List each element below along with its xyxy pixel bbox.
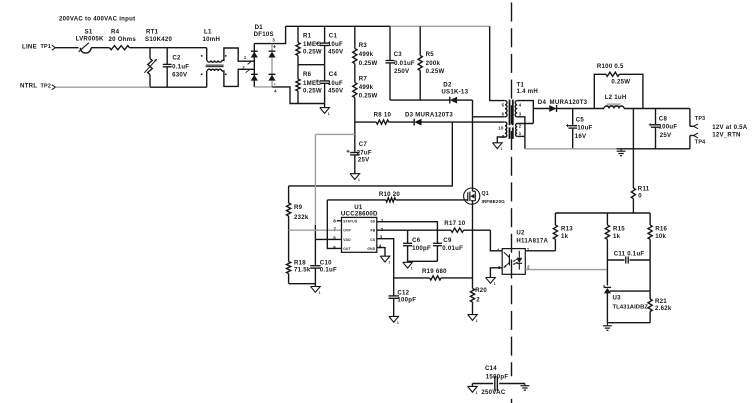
ground [603,323,612,331]
svg-text:C5: C5 [576,117,585,124]
resistor R15 [605,213,625,285]
svg-text:1: 1 [388,261,390,265]
svg-text:1: 1 [476,319,478,323]
wire VDD drop lower [314,225,316,266]
svg-text:250V: 250V [394,68,410,75]
wire VDD pin 6 [315,238,341,240]
svg-text:0.25W: 0.25W [359,92,378,99]
wire [533,108,549,110]
wire [298,103,325,105]
svg-text:1: 1 [411,267,413,271]
svg-text:TL431AIDBZ: TL431AIDBZ [613,304,649,310]
svg-text:450V: 450V [328,49,344,56]
svg-text:US1K-13: US1K-13 [441,89,468,96]
capacitor C14 1500pF [472,365,525,396]
svg-text:1: 1 [476,391,478,395]
svg-text:1: 1 [519,131,522,136]
test point TP2 [41,83,56,89]
svg-text:16V: 16V [575,133,587,140]
svg-text:100uF: 100uF [659,123,678,130]
svg-text:630V: 630V [172,71,188,78]
svg-text:C14: C14 [485,365,497,372]
svg-text:CS: CS [370,238,376,242]
svg-text:20 Ohms: 20 Ohms [109,36,137,43]
svg-text:TP4: TP4 [695,140,706,146]
svg-text:R3: R3 [359,42,368,49]
wire [222,69,255,86]
svg-text:TP1: TP1 [41,44,52,50]
svg-text:5: 5 [502,102,505,107]
svg-text:C10: C10 [320,259,332,266]
svg-text:4: 4 [519,102,522,107]
wire [130,47,207,49]
wire [408,260,438,262]
wire FB pin 2 [377,229,451,231]
svg-text:L1: L1 [204,28,212,35]
svg-text:GND: GND [367,247,375,251]
svg-text:Q1: Q1 [482,191,489,197]
svg-text:D4: D4 [538,99,547,106]
title label [59,15,135,22]
svg-text:2: 2 [519,124,522,129]
svg-text:0.25W: 0.25W [426,68,445,75]
svg-text:C11 0.1uF: C11 0.1uF [614,251,645,258]
capacitor C11 [607,251,650,264]
svg-text:232k: 232k [294,214,309,221]
wire clamp node [390,99,450,101]
wire VDD node [355,121,377,123]
svg-text:1: 1 [244,55,247,60]
svg-text:R15: R15 [613,225,625,232]
capacitor C5 [566,109,593,149]
svg-text:1.4 mH: 1.4 mH [517,88,538,95]
wire SS pin 1 [377,222,438,244]
resistor R3 [353,26,378,67]
wire [298,64,325,66]
ground [320,104,330,117]
inductor L2 1uH [604,94,627,108]
resistor R4 [109,28,137,49]
svg-text:R6: R6 [303,71,312,78]
svg-text:100pF: 100pF [397,297,416,304]
wire bias return [497,137,505,143]
T1 secondary winding 2 [516,124,522,137]
svg-text:2.62k: 2.62k [655,305,672,312]
transistor Q1 IRFBE20G [464,188,506,204]
wire opto pin 2 [525,269,607,271]
wire sec pin 2 [517,123,533,125]
wire [457,99,472,101]
svg-text:R5: R5 [426,51,435,58]
wire return rail [617,136,690,149]
node LINE label [22,43,37,50]
capacitor C10 [310,259,337,286]
wire sec pin 1 [517,136,525,148]
resistor R11 [631,109,649,214]
svg-text:71.5k: 71.5k [294,267,311,274]
svg-text:450V: 450V [328,87,344,94]
svg-text:R17 10: R17 10 [444,220,466,227]
svg-text:C8: C8 [659,116,668,123]
svg-text:1: 1 [501,147,503,151]
svg-text:0.01uF: 0.01uF [442,245,463,252]
svg-text:0.25W: 0.25W [359,60,378,67]
svg-text:TP3: TP3 [695,116,706,122]
diode D3 MURA120T3 [405,112,453,126]
svg-text:0.25W: 0.25W [303,49,322,56]
wire sense node [555,212,650,214]
svg-text:D3 MURA120T3: D3 MURA120T3 [405,112,453,119]
ground [350,174,360,182]
resistor R18 [287,259,311,283]
svg-text:R10 20: R10 20 [379,191,401,198]
wire DC bus gray [390,25,490,27]
diode D2 US1K-13 [441,82,468,104]
svg-text:25V: 25V [358,157,370,164]
transformer T1 1.4 mH [517,82,538,95]
svg-text:499k: 499k [359,51,374,58]
svg-text:FB: FB [370,229,375,233]
capacitor C1 [316,26,344,64]
wire return rail gray [525,148,617,150]
svg-text:12V_RTN: 12V_RTN [712,131,741,138]
label 12V return [712,131,741,138]
wire source [472,201,474,289]
svg-text:U2: U2 [516,230,525,237]
diode D4 MURA120T3 [538,99,588,112]
svg-text:200VAC to 400VAC input: 200VAC to 400VAC input [59,15,135,22]
test point TP1 [41,44,56,50]
T1 primary winding [502,101,507,117]
capacitor C9 [433,237,463,261]
optocoupler U2 H11A817A [497,230,549,275]
wire opto pin 3 [490,268,502,278]
resistor R7 [353,64,378,153]
svg-text:RT1: RT1 [146,28,159,35]
svg-text:R8 10: R8 10 [374,112,392,119]
wire OVP sense [289,122,453,186]
svg-text:1MEG: 1MEG [303,41,321,48]
svg-text:1: 1 [358,178,360,182]
wire GND pin 4 [377,248,385,257]
ground [311,287,321,295]
ground [389,316,399,324]
svg-text:R1: R1 [303,33,312,40]
svg-text:10uF: 10uF [328,80,343,87]
resistor R20 [470,287,487,314]
svg-text:100pF: 100pF [412,245,431,252]
wire [389,121,415,123]
svg-text:IRFBE20G: IRFBE20G [482,199,506,204]
svg-text:DF10S: DF10S [254,31,274,38]
test point TP3 [690,116,706,129]
resistor R5 [418,26,444,100]
wire CS pin 3 [377,239,394,296]
wire [91,47,109,49]
svg-text:S10K420: S10K420 [145,36,173,43]
resistor R19 [394,268,473,280]
ground [493,143,503,151]
svg-text:0.01uF: 0.01uF [394,60,415,67]
wire [624,108,690,110]
svg-text:0.1uF: 0.1uF [172,63,189,70]
wire sec pin 4 [517,101,533,124]
svg-text:499k: 499k [359,84,374,91]
svg-text:6: 6 [502,112,505,117]
svg-text:1k: 1k [613,233,621,240]
svg-text:10k: 10k [655,233,666,240]
wire bus to primary [490,26,505,100]
resistor R9 [287,186,309,262]
svg-text:8: 8 [333,218,336,223]
capacitor C6 [403,230,431,262]
capacitor C8 [649,109,678,149]
inductor L1 [201,28,227,87]
svg-text:C4: C4 [329,71,338,78]
test point TP4 [690,133,706,146]
svg-text:10mH: 10mH [203,36,221,43]
wire OUT riser [327,200,341,249]
svg-text:TP2: TP2 [41,83,52,89]
capacitor C12 [389,290,417,317]
svg-text:C9: C9 [443,237,452,244]
wire bridge + output [272,26,285,43]
svg-text:NTRL: NTRL [20,83,37,90]
resistor R1 [296,26,322,64]
ground [617,149,626,156]
svg-text:0.25W: 0.25W [303,87,322,94]
svg-text:R18: R18 [294,259,306,266]
svg-text:0.25W: 0.25W [611,78,630,85]
T1 core [509,100,514,139]
label 12V output [712,124,748,131]
capacitor C2 [163,48,189,87]
svg-text:3: 3 [519,112,522,117]
svg-text:VDD: VDD [343,238,351,242]
IC U1 UCC28600D [333,204,384,252]
svg-text:R20: R20 [475,287,487,294]
wire sec pin 3 [517,117,525,137]
svg-text:0.1uF: 0.1uF [320,267,337,274]
wire [55,47,78,49]
svg-text:7: 7 [333,227,336,232]
svg-text:R4: R4 [111,28,120,35]
svg-text:4: 4 [497,248,500,253]
svg-text:U3: U3 [613,295,622,302]
wire T1 primary bottom [473,116,505,118]
wire DC bus [286,25,390,27]
T1 secondary winding 1 [515,101,522,117]
svg-text:UCC28600D: UCC28600D [341,210,378,217]
svg-text:+: + [273,44,277,50]
svg-text:1: 1 [319,291,321,295]
svg-text:9: 9 [502,134,505,139]
svg-text:STATUS: STATUS [343,220,358,224]
resistor R16 [648,213,667,291]
svg-text:H11A817A: H11A817A [516,238,548,245]
ground [521,384,530,391]
wire bridge - output [272,87,298,104]
wire [289,283,316,285]
wire [55,86,150,88]
svg-text:L2 1uH: L2 1uH [605,94,627,101]
svg-text:OVP: OVP [343,229,351,233]
wire [150,86,207,88]
ground [468,384,478,395]
resistor R100 [594,63,643,109]
isolation boundary dashed line [511,3,513,403]
ground [380,256,390,264]
wire VDD drop [314,134,316,225]
svg-text:R13: R13 [561,225,573,232]
svg-text:25V: 25V [660,132,672,139]
svg-text:0: 0 [638,193,642,200]
wire FB to opto [490,230,502,251]
ground [403,262,413,270]
svg-text:1: 1 [494,282,496,286]
bridge rectifier D1 DF10S [242,24,277,94]
svg-text:R21: R21 [655,298,667,305]
svg-text:LINE: LINE [22,43,37,50]
wire bias winding node [422,121,505,123]
svg-text:1k: 1k [561,233,569,240]
resistor R8 [374,112,392,125]
resistor R21 [648,291,672,323]
T1 bias winding [498,122,506,139]
svg-text:2: 2 [527,265,530,270]
svg-text:R16: R16 [655,225,667,232]
wire VDD link [315,133,354,135]
ground [468,315,478,323]
capacitor C3 [386,26,415,100]
wire output corner [689,109,691,127]
wire switch node [472,100,474,188]
shunt regulator U3 TL431AIDBZ [604,285,649,323]
svg-text:D1: D1 [255,24,264,31]
ground [486,278,496,286]
fuse S1 LVR005K [76,28,104,53]
svg-text:R11: R11 [638,185,650,192]
svg-text:R100 0.5: R100 0.5 [597,63,624,70]
capacitor C7 [347,141,372,174]
resistor R10 [327,191,468,202]
wire [222,48,255,61]
svg-text:OUT: OUT [343,247,351,251]
wire OVP row [289,229,342,231]
svg-text:2: 2 [242,65,245,70]
svg-text:C1: C1 [329,33,338,40]
svg-text:C6: C6 [412,237,421,244]
svg-text:S1: S1 [85,28,93,35]
wire opto pin 1 [525,250,555,252]
svg-text:MURA120T3: MURA120T3 [550,99,588,106]
capacitor C4 [316,65,344,104]
svg-text:R9: R9 [294,204,303,211]
svg-text:10uF: 10uF [328,41,343,48]
svg-text:2: 2 [476,297,480,304]
svg-text:C3: C3 [394,51,403,58]
svg-text:R19 680: R19 680 [422,268,447,275]
svg-text:3: 3 [272,37,275,42]
svg-text:C7: C7 [359,141,368,148]
resistor R17 [444,220,490,232]
svg-text:200k: 200k [426,60,441,67]
svg-text:250VAC: 250VAC [481,389,505,396]
svg-text:R7: R7 [359,75,368,82]
svg-text:10uF: 10uF [577,125,592,132]
wire [607,322,650,324]
svg-text:10: 10 [498,125,504,130]
svg-text:LVR005K: LVR005K [76,36,104,43]
svg-text:C2: C2 [172,54,181,61]
svg-text:12V at 0.5A: 12V at 0.5A [712,124,748,131]
wire output node [557,108,605,110]
varistor RT1 [144,28,172,87]
svg-text:SS: SS [370,220,375,224]
wire ref [610,290,650,292]
node NTRL label [20,83,37,90]
svg-text:4: 4 [274,89,277,94]
resistor R13 [553,213,573,251]
svg-text:1: 1 [397,321,399,325]
svg-text:1: 1 [328,112,330,116]
resistor R6 [296,65,322,104]
